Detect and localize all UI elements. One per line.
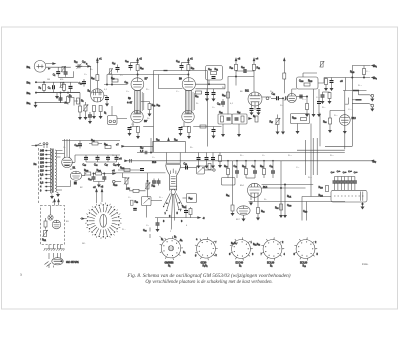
thyratron grid ellipse B17: [237, 206, 250, 215]
svg-text:B7': B7': [145, 79, 149, 81]
svg-text:GZ30: GZ30: [201, 263, 208, 265]
ground R90: [329, 129, 332, 133]
svg-text:R₁₃₈: R₁₃₈: [308, 177, 312, 179]
capacitor C88: [321, 95, 325, 97]
svg-text:C₅₀: C₅₀: [208, 69, 212, 71]
trimmer R9: [59, 82, 63, 88]
svg-text:B₅,B₆: B₅,B₆: [231, 243, 237, 245]
ground R91: [231, 212, 234, 216]
grid bias run: [112, 172, 166, 174]
svg-text:R₈₅: R₈₅: [260, 166, 264, 168]
ground B14 cathode: [250, 201, 253, 205]
capacitor inside feedback box: [212, 77, 216, 79]
resistor R98: [92, 142, 98, 145]
svg-text:R₁₄₁: R₁₄₁: [287, 196, 291, 198]
svg-text:C₁: C₁: [53, 75, 56, 77]
rectifier B2: [70, 171, 81, 180]
left column riser: [227, 77, 229, 115]
thyratron B14: [248, 183, 262, 197]
svg-text:R₁₃₂: R₁₃₂: [334, 115, 338, 117]
svg-text:C₁₀₅: C₁₀₅: [302, 99, 306, 101]
ground cathode: [93, 115, 96, 119]
ground C97: [156, 228, 159, 232]
wire anode feed: [96, 62, 98, 89]
capacitor C79b: [157, 181, 161, 183]
svg-text:Op verschillende plaatsen is d: Op verschillende plaatsen is de schakeli…: [145, 280, 272, 285]
svg-text:R₇₂: R₇₂: [195, 96, 198, 98]
cathode resistor R27: [93, 106, 96, 112]
range box: [222, 178, 236, 186]
socket 4 pins: [261, 237, 284, 260]
svg-text:R₉₈: R₉₈: [91, 140, 95, 142]
potentiometer R87: [275, 118, 280, 125]
svg-text:GM5653: GM5653: [165, 263, 175, 265]
svg-text:B₈: B₈: [270, 266, 273, 268]
X terminal 1 wire: [359, 91, 372, 96]
HT arrows above rotary: [96, 190, 98, 204]
svg-text:C₁₀₇: C₁₀₇: [348, 109, 352, 111]
triode B9 top: [182, 78, 195, 91]
input jack Bu1: [34, 61, 46, 73]
terminal +7: [122, 145, 125, 147]
resistor R70: [187, 65, 190, 71]
capacitor C79a: [152, 181, 156, 183]
wire anode B11 right: [262, 96, 271, 98]
svg-text:C₈₁: C₈₁: [217, 104, 221, 106]
capacitor C29: [105, 98, 109, 100]
resistor R110: [44, 221, 47, 227]
socket 5 pins: [294, 237, 317, 260]
capacitor C44: [180, 66, 184, 68]
pilot lamp: [48, 215, 53, 220]
riser to lower section: [311, 113, 320, 146]
svg-text:R₁₁₁: R₁₁₁: [42, 240, 46, 242]
socket 3: [232, 240, 251, 259]
svg-text:R₉₀: R₉₀: [323, 122, 327, 124]
capacitor C111: [356, 99, 362, 101]
tap wire to R50: [141, 102, 150, 104]
capacitor bank C95: [350, 181, 354, 183]
riser pair lower right: [302, 197, 307, 221]
svg-text:B₅: B₅: [88, 91, 91, 93]
switch arrow: [249, 118, 252, 120]
svg-text:R₁₂₅: R₁₂₅: [308, 81, 312, 83]
coupling capacitor C82: [277, 96, 279, 100]
svg-text:R₈₁: R₈₁: [257, 68, 261, 70]
resistor R72b: [188, 127, 191, 133]
capacitor C109: [330, 81, 334, 83]
CRT deflection plates: [171, 169, 176, 184]
pin fan labels: [166, 203, 167, 204]
capacitor C80 between: [244, 69, 246, 73]
pentode B5: [91, 89, 104, 102]
CRT base: [171, 189, 175, 194]
svg-text:C₁₁₀: C₁₁₀: [303, 211, 307, 213]
capacitor C84: [300, 95, 302, 99]
junction dots cluster: [60, 92, 61, 93]
capacitor bank C91: [336, 181, 340, 183]
terminal Bu5: [372, 65, 375, 67]
input switch cluster: [68, 98, 78, 106]
svg-text:R₃: R₃: [39, 88, 42, 90]
svg-text:1M: 1M: [47, 79, 50, 81]
transformer T1 secondary: [55, 150, 57, 192]
resistor R84: [245, 169, 248, 175]
svg-text:C₇₇: C₇₇: [262, 155, 265, 157]
svg-text:B11: B11: [245, 91, 250, 93]
anode wires right: [262, 185, 314, 189]
svg-text:C₃₅: C₃₅: [126, 91, 129, 93]
svg-text:R₁₀₈: R₁₀₈: [113, 185, 117, 187]
socket 4: [263, 240, 282, 259]
voltage reg tube GM4574: [52, 258, 63, 265]
junction: [188, 62, 189, 63]
resistor R82: [227, 92, 230, 98]
svg-text:R₈₈: R₈₈: [270, 91, 273, 93]
arrow on Bu1 top line: [53, 63, 56, 65]
svg-text:C₆₇: C₆₇: [105, 165, 109, 167]
capacitor C73 at bus end: [145, 151, 147, 155]
resistor R143: [326, 186, 329, 192]
resistor R72: [196, 91, 202, 94]
resistor R52: [137, 127, 140, 133]
ground R6: [84, 116, 87, 120]
feedback box top right: [297, 77, 319, 89]
wire row to tube: [228, 177, 255, 179]
svg-text:C₇₄: C₇₄: [88, 179, 91, 181]
svg-text:B8': B8': [144, 121, 148, 123]
screen cap B11: [257, 109, 261, 111]
bias cluster: [184, 211, 188, 213]
resistor R8: [67, 97, 70, 103]
arrow Bu4: [64, 102, 67, 105]
riser x313: [313, 89, 315, 113]
junction: [137, 62, 138, 63]
HT feed arrow +1: [96, 59, 98, 62]
ground B17: [243, 215, 245, 217]
svg-text:C₅₂: C₅₂: [212, 107, 215, 109]
X terminal 1: [371, 94, 374, 97]
svg-text:R₅₁: R₅₁: [215, 69, 219, 71]
mains switch S3: [37, 143, 42, 146]
junction: [104, 173, 105, 174]
primary taps: [45, 151, 51, 191]
filter capacitor C68: [115, 157, 119, 159]
resistor R109: [133, 189, 139, 192]
trimmer R140: [319, 61, 324, 67]
wire Bu1 to attenuator: [46, 64, 71, 68]
svg-text:S₂: S₂: [52, 202, 54, 204]
timebase component row: resistor R83: [227, 169, 230, 175]
grid cap wire: [181, 167, 197, 169]
dashed line in delay unit: [334, 195, 364, 197]
chassis hatch: [44, 248, 65, 250]
tube B3 in box: [52, 220, 61, 229]
socket 1: [161, 239, 180, 258]
capacitor C71: [253, 171, 257, 173]
terminal +8 left end: [125, 160, 128, 162]
svg-text:C₈₀: C₈₀: [296, 167, 299, 169]
control box C: [291, 114, 310, 124]
svg-text:R₉₈: R₉₈: [152, 186, 156, 188]
resistor R80: [235, 64, 238, 70]
svg-text:R₉₂: R₉₂: [261, 211, 265, 213]
bus +2 top: [107, 74, 189, 76]
potentiometer R111: [42, 230, 47, 237]
trimmer C83: [284, 96, 289, 101]
secondary bottom taps: [57, 180, 71, 192]
junction dots Bu6 line: [352, 77, 353, 78]
tick on loop box top: [164, 70, 168, 72]
smoothing capacitor C75a: [197, 158, 201, 160]
svg-text:R₈₃: R₈₃: [224, 166, 228, 168]
ground screen: [99, 115, 102, 119]
svg-text:C₈₉: C₈₉: [184, 164, 188, 166]
mains wire: [32, 145, 43, 147]
svg-text:B₁₁,B₁₂: B₁₁,B₁₂: [253, 244, 260, 246]
cathode parts B10: [181, 122, 189, 127]
capacitor C97: [156, 223, 160, 225]
bus wire y161 to Bu7: [128, 160, 372, 162]
svg-text:R₈₉: R₈₉: [280, 105, 283, 107]
resistor R50: [148, 104, 151, 110]
resistor R85: [263, 169, 266, 175]
potentiometer R6: [83, 105, 88, 112]
resistor R87b: [283, 73, 286, 79]
resistor R29: [112, 79, 118, 82]
arrow on Bu1 lower line: [48, 68, 50, 70]
arrow grid feed: [88, 65, 91, 67]
resistor R90: [329, 118, 332, 124]
capacitor bank C92: [339, 181, 343, 183]
ground R72b: [188, 135, 191, 139]
capacitor C78: [140, 169, 144, 171]
drop to brightness pot: [123, 173, 127, 178]
arrows above vibrator box: [54, 200, 56, 206]
risers x281 x285: [281, 161, 285, 214]
ground risers: [312, 113, 315, 117]
svg-text:C₈₂: C₈₂: [272, 94, 276, 96]
ground R89: [328, 100, 331, 104]
svg-text:R₁₄₅: R₁₄₅: [358, 85, 362, 87]
ground R50: [148, 112, 151, 116]
junction on +2 bus: [188, 74, 189, 75]
chassis X1: [371, 97, 374, 101]
triode B12: [287, 93, 296, 102]
svg-text:C₃₄: C₃₄: [125, 82, 129, 84]
terminal jack: [266, 97, 269, 100]
delay unit box: [331, 190, 367, 202]
getter blob B2: [74, 182, 77, 185]
svg-text:R₇₁: R₇₁: [196, 103, 199, 105]
wire B1 to rail: [72, 155, 76, 162]
potentiometer R98b focus: [145, 183, 150, 190]
capacitor C5: [69, 87, 73, 89]
bus wire y146 right: [325, 145, 352, 147]
capacitor C86b: [235, 171, 239, 173]
ground B10: [179, 132, 182, 136]
svg-text:R₅₂: R₅₂: [147, 118, 150, 120]
capacitor C27: [116, 68, 120, 70]
filter capacitor C66: [96, 157, 100, 159]
wire timebase out: [249, 201, 345, 204]
svg-text:R₁₃₁: R₁₃₁: [322, 107, 326, 109]
loop wire box column1: [154, 71, 208, 153]
svg-text:R₁₄₃: R₁₄₃: [319, 187, 323, 189]
filter rail mid: [75, 154, 120, 156]
riser loop left: [150, 138, 152, 153]
capacitor C75: [102, 177, 106, 179]
resistor inside feedback box: [211, 72, 217, 75]
junction dot: [43, 82, 44, 83]
filter capacitor C67: [106, 157, 110, 159]
svg-text:R₁₀₀: R₁₀₀: [112, 155, 116, 157]
terminal jack: [113, 180, 116, 183]
grid leak riser: [282, 98, 284, 130]
svg-text:R₂₆: R₂₆: [140, 68, 144, 70]
capacitor C1: [56, 72, 60, 74]
ground box C: [297, 124, 299, 130]
pentode B11: [248, 92, 262, 106]
ground C52: [206, 97, 209, 101]
riser focus: [147, 173, 149, 198]
delay line L1: [135, 91, 141, 114]
triode B8 bottom: [131, 110, 143, 122]
HT arrow +3: [235, 59, 237, 62]
ground C53: [212, 97, 215, 101]
svg-text:Bu₃: Bu₃: [27, 93, 31, 95]
wire heater run: [118, 169, 142, 171]
pointer strokes: [45, 262, 52, 267]
resistor R93: [280, 204, 283, 210]
wire bottom column1: [143, 126, 153, 128]
svg-text:R₈₀: R₈₀: [230, 68, 234, 70]
socket 3 pins: [230, 237, 253, 260]
capacitor C81: [221, 102, 225, 104]
svg-text:C₂₈: C₂₈: [120, 75, 123, 77]
socket 2: [197, 239, 216, 258]
svg-text:C₆₅: C₆₅: [83, 165, 87, 167]
astig box: [142, 197, 152, 206]
svg-text:R₈₇: R₈₇: [270, 122, 274, 124]
svg-text:B₂: B₂: [174, 237, 177, 239]
svg-text:R₂₃: R₂₃: [90, 69, 93, 71]
ground R5: [79, 116, 82, 120]
svg-text:C₆₄: C₆₄: [63, 147, 66, 149]
series resistor R145: [353, 90, 359, 92]
ground transformer: [57, 193, 60, 197]
svg-text:R₉₉: R₉₉: [135, 202, 139, 204]
triode B13: [339, 115, 350, 126]
svg-text:C₇₁: C₇₁: [252, 166, 255, 168]
B13 cathode: [344, 125, 346, 129]
wire B12 anode right: [296, 96, 307, 98]
capacitor C89: [186, 166, 188, 170]
svg-text:R₁₀₄: R₁₀₄: [97, 170, 101, 172]
ground B8: [128, 132, 131, 136]
svg-text:R₂₉: R₂₉: [111, 78, 115, 80]
svg-text:B₃: B₃: [180, 240, 183, 242]
terminal dot: [213, 169, 215, 171]
trimmer C3: [61, 66, 66, 72]
secondary taps to rectifier: [57, 151, 65, 158]
svg-text:C₁₀₄: C₁₀₄: [299, 81, 303, 83]
capacitor C53: [212, 93, 216, 95]
svg-text:Bu₁: Bu₁: [27, 67, 31, 69]
HV feed verticals: [65, 139, 70, 158]
svg-text:R₁₃₀: R₁₃₀: [292, 118, 296, 120]
svg-text:R₁₀₃: R₁₀₃: [84, 170, 88, 172]
filter rail top: [62, 140, 120, 142]
wire to B13: [330, 111, 345, 119]
CRT pin terminals: [166, 210, 167, 211]
svg-text:C₁₁₁: C₁₁₁: [366, 71, 370, 73]
svg-text:R₅₈: R₅₈: [157, 105, 161, 107]
junction: [93, 173, 94, 174]
svg-text:C₇₃: C₇₃: [152, 157, 155, 159]
resistor R119: [208, 164, 211, 170]
riser to lower right: [344, 91, 346, 150]
bus wire y152.5 left: [137, 152, 345, 154]
chassis X2: [371, 107, 374, 111]
arrow +3 out: [198, 217, 201, 219]
svg-text:B13: B13: [352, 118, 357, 120]
CRT pin leads: [164, 193, 182, 229]
capacitor C2: [64, 72, 68, 74]
junction: [282, 98, 283, 99]
cathode cap B11: [250, 109, 254, 111]
wire grid B9 from bus: [158, 75, 182, 89]
grid riser left: [232, 161, 234, 205]
svg-text:C₂₅: C₂₅: [79, 83, 83, 85]
svg-text:Fig. 8. Schema van de oscillog: Fig. 8. Schema van de oscillograaf GM 56…: [126, 272, 290, 279]
trimmer C34: [108, 69, 112, 75]
svg-text:R₇₀: R₇₀: [191, 68, 194, 70]
sync takeoff box: [108, 116, 118, 125]
svg-text:Indus.: Indus.: [362, 264, 369, 266]
svg-text:R₄: R₄: [69, 96, 72, 98]
left risers to bus nest: [306, 138, 318, 175]
ground: [212, 164, 215, 168]
capacitor C25: [82, 82, 86, 84]
ground R87: [276, 130, 279, 134]
resistor R133: [325, 79, 328, 85]
resistor R25: [96, 75, 99, 81]
svg-text:S₁: S₁: [104, 113, 107, 115]
svg-text:C₆₆: C₆₆: [94, 165, 98, 167]
svg-text:C₁₀₈: C₁₀₈: [287, 205, 291, 207]
wire B10 anode out: [193, 126, 221, 128]
smoothing capacitor C76: [205, 158, 209, 160]
ground C29: [106, 102, 109, 106]
capacitor C30: [129, 66, 133, 68]
bypass capacitor C26: [88, 115, 92, 117]
ground C109: [330, 87, 333, 91]
HT arrow +2 column2: [187, 59, 189, 62]
svg-text:R₂₅: R₂₅: [91, 78, 95, 80]
ground R52: [137, 135, 140, 139]
stub riser: [345, 98, 349, 105]
capacitor C52: [205, 93, 209, 95]
linkage dash line: [38, 148, 40, 203]
bars in delay unit: [361, 192, 363, 201]
rotary switch spokes: [89, 206, 118, 235]
svg-text:R₉₁: R₉₁: [226, 195, 230, 197]
svg-text:R₁₁₇: R₁₁₇: [189, 198, 193, 200]
svg-text:B16: B16: [152, 162, 157, 164]
resistor R86: [306, 104, 309, 110]
capacitor bank C94: [346, 181, 350, 183]
